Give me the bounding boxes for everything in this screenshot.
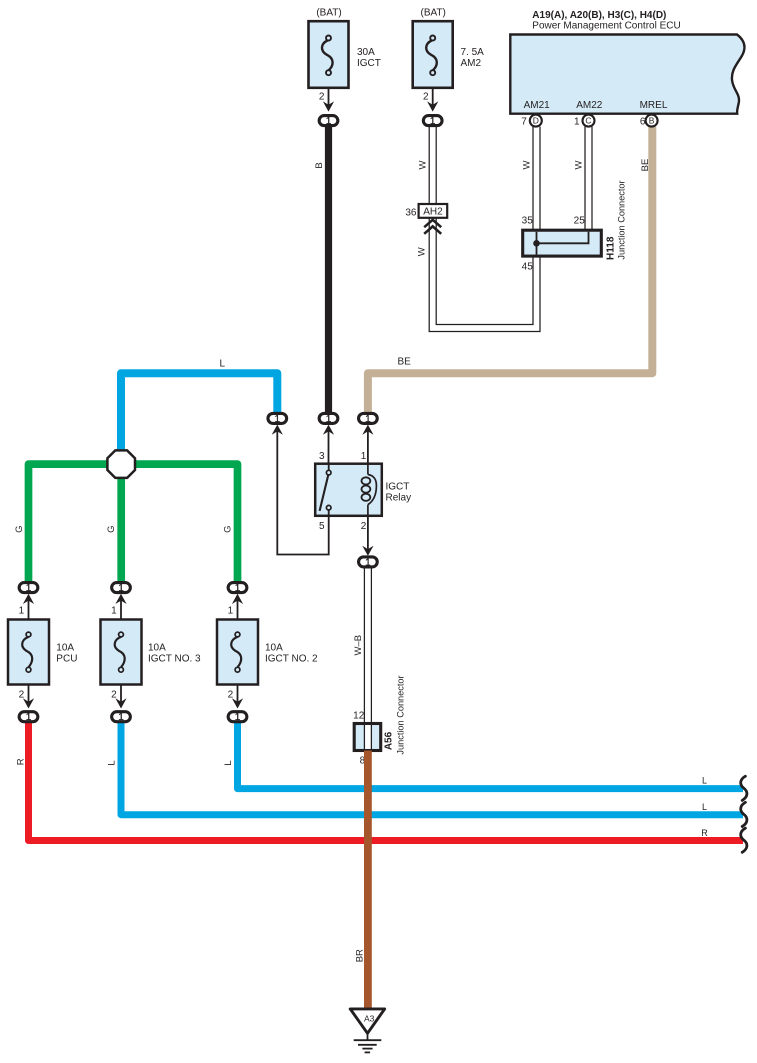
svg-text:L: L (223, 760, 234, 765)
relay IGCT Relay U1 (315, 451, 411, 532)
fuse 10A PCU (8, 620, 77, 685)
wire L (blue, IGCT NO.2 fuse to right edge) (238, 723, 744, 789)
label pin 45 of H118 (522, 262, 534, 273)
label W on AM21 wire (521, 160, 532, 169)
svg-text:IGCT NO. 3: IGCT NO. 3 (148, 654, 201, 665)
node IGCT NO.3 fuse bottom oval pin 2 (111, 690, 130, 724)
wire L (blue, from octagon junction up and right to relay-area oval) (121, 373, 277, 451)
svg-text:36: 36 (405, 207, 417, 218)
svg-text:L: L (106, 760, 117, 765)
wire BR (brown, A56 to ground A3) (364, 751, 372, 1010)
node relay-area left oval connector (268, 413, 287, 434)
label pin 25 of H118 (574, 216, 586, 227)
svg-text:1: 1 (19, 606, 25, 617)
connector AH2 pin 36 (405, 204, 447, 218)
svg-text:G: G (223, 526, 234, 533)
wire fuse 7.5A AM2 pin 2 lead (432, 88, 434, 111)
svg-text:1: 1 (235, 583, 241, 594)
node octagon junction (107, 450, 135, 478)
label L at right edge top (702, 776, 707, 786)
break squiggle right end of blue L wire (middle) (741, 802, 747, 826)
svg-text:10A: 10A (148, 643, 166, 654)
node IGCT NO.3 fuse top oval (111, 583, 130, 617)
svg-text:7: 7 (521, 116, 527, 127)
label L on blue vertical (right) (223, 760, 234, 765)
label L on blue top wire (220, 359, 226, 370)
label W on AM2 wire (418, 160, 429, 169)
svg-text:35: 35 (522, 216, 534, 227)
label L at right edge middle (702, 802, 707, 812)
svg-text:30A: 30A (357, 47, 375, 58)
pin 6 (B) of ECU (640, 115, 658, 128)
op ECU Power Management Control ECU (510, 10, 744, 114)
svg-text:1: 1 (228, 606, 234, 617)
break squiggle right end of red R wire (741, 828, 747, 852)
svg-text:L: L (702, 776, 707, 786)
label G middle (106, 526, 117, 533)
node relay-area right oval connector (359, 413, 378, 434)
label BR on brown wire (354, 949, 365, 962)
fuse 30A IGCT (309, 8, 381, 127)
label G right (223, 526, 234, 533)
node IGCT NO.2 fuse bottom oval pin 2 (228, 690, 247, 724)
wire R (red, PCU fuse to right edge) (29, 723, 744, 841)
svg-text:1: 1 (26, 712, 32, 723)
svg-text:1: 1 (361, 451, 367, 462)
svg-text:AH2: AH2 (423, 207, 443, 218)
label R on red vertical (16, 758, 27, 765)
wire W (ECU pin 7 D AM21 to H118 pin 35) (533, 127, 540, 231)
svg-text:IGCT NO. 2: IGCT NO. 2 (265, 654, 318, 665)
wire from right oval to relay pin 1 (367, 431, 369, 464)
junction connector A56 pins 12/8 (353, 711, 381, 767)
svg-text:1: 1 (365, 557, 371, 568)
wire B (black, 30A IGCT fuse to relay oval) (325, 127, 332, 413)
svg-text:A19(A), A20(B), H3(C), H4(D): A19(A), A20(B), H3(C), H4(D) (532, 10, 666, 21)
svg-text:L: L (702, 802, 707, 812)
label G left (14, 526, 25, 533)
svg-text:(BAT): (BAT) (421, 8, 446, 19)
svg-text:B: B (314, 162, 325, 168)
svg-text:B: B (649, 116, 655, 126)
node PCU fuse bottom oval pin 2 (19, 690, 38, 724)
svg-text:5: 5 (319, 521, 325, 532)
node oval connector below relay pin 2 (359, 546, 378, 569)
svg-text:G: G (14, 526, 25, 533)
svg-text:A3: A3 (364, 1013, 375, 1023)
svg-text:10A: 10A (56, 643, 74, 654)
svg-text:(BAT): (BAT) (316, 8, 341, 19)
svg-text:2: 2 (319, 92, 325, 103)
svg-text:D: D (533, 116, 539, 126)
label BE on MREL wire vertical (640, 159, 651, 172)
svg-text:45: 45 (522, 262, 534, 273)
svg-text:1: 1 (365, 414, 371, 425)
svg-text:12: 12 (353, 711, 365, 722)
wire from middle oval to relay pin 3 (328, 431, 330, 464)
label L on blue vertical (middle) (106, 760, 117, 765)
wire G middle branch (octagon to 10A IGCT NO.3 fuse oval) (117, 476, 125, 582)
label W on AM22 wire (574, 160, 585, 169)
wire L (blue, IGCT NO.3 fuse to right edge) (121, 723, 743, 815)
label B on black wire (314, 162, 325, 168)
svg-text:AM2: AM2 (461, 58, 482, 69)
svg-text:Junction Connector: Junction Connector (617, 180, 627, 259)
svg-text:Power Management Control ECU: Power Management Control ECU (532, 21, 680, 32)
wire relay pin 2 lead (367, 516, 369, 549)
label BE on horizontal segment (398, 357, 412, 368)
svg-text:BE: BE (640, 159, 651, 172)
svg-text:H118: H118 (605, 236, 616, 260)
svg-text:3: 3 (319, 451, 325, 462)
svg-text:AM22: AM22 (576, 100, 603, 111)
svg-text:PCU: PCU (56, 654, 77, 665)
svg-text:Junction Connector: Junction Connector (396, 675, 406, 754)
svg-text:G: G (106, 526, 117, 533)
fuse 10A IGCT NO.3 (101, 620, 202, 685)
wire W-B (relay oval to A56 junction connector) (364, 568, 371, 723)
svg-text:1: 1 (118, 583, 124, 594)
wire fuse 30A IGCT pin 2 lead (328, 88, 330, 111)
pin 1 (C) of ECU (574, 115, 594, 128)
svg-text:2: 2 (361, 521, 367, 532)
label R at right edge (701, 828, 708, 838)
svg-text:W: W (521, 160, 532, 169)
wire W (AM2 fuse oval to AH2 connector) (429, 127, 436, 204)
svg-text:W–B: W–B (353, 635, 364, 656)
svg-text:W: W (417, 247, 428, 256)
svg-text:7. 5A: 7. 5A (461, 47, 485, 58)
svg-text:L: L (220, 359, 226, 370)
ground A3 (350, 1009, 385, 1053)
label A56 Junction Connector (383, 675, 405, 754)
fuse 10A IGCT NO.2 (217, 620, 318, 685)
break squiggle right end of blue L wire (top) (741, 776, 747, 800)
wire G right branch (octagon to 10A IGCT NO.2 fuse oval) (134, 464, 238, 582)
svg-text:1: 1 (326, 414, 332, 425)
svg-text:1: 1 (430, 116, 436, 127)
svg-text:R: R (701, 828, 708, 838)
svg-text:1: 1 (111, 606, 117, 617)
svg-text:R: R (16, 758, 27, 765)
label W on AH2 lower wire (417, 247, 428, 256)
svg-text:10A: 10A (265, 643, 283, 654)
junction connector H118 (523, 230, 602, 256)
svg-text:A56: A56 (383, 731, 394, 750)
node relay-area middle oval connector (319, 413, 338, 434)
wire G left branch (octagon to 10A PCU fuse oval) (29, 464, 109, 582)
svg-text:C: C (585, 116, 591, 126)
fuse 7.5A AM2 (413, 8, 484, 127)
label pin 35 of H118 (522, 216, 534, 227)
node IGCT NO.2 fuse top oval (228, 583, 247, 617)
node PCU fuse top oval (19, 583, 38, 617)
svg-text:2: 2 (423, 92, 429, 103)
svg-text:1: 1 (326, 116, 332, 127)
svg-text:1: 1 (235, 712, 241, 723)
svg-text:25: 25 (574, 216, 586, 227)
svg-text:MREL: MREL (640, 100, 668, 111)
svg-text:BE: BE (398, 357, 412, 368)
svg-text:AM21: AM21 (524, 100, 551, 111)
svg-text:1: 1 (118, 712, 124, 723)
svg-text:1: 1 (26, 583, 32, 594)
svg-text:W: W (418, 160, 429, 169)
label H118 Junction Connector (605, 180, 626, 260)
wire W (ECU pin 1 C AM22 to H118 pin 25) (585, 127, 592, 231)
svg-text:W: W (574, 160, 585, 169)
label W-B on relay output wire (353, 635, 364, 656)
svg-text:BR: BR (354, 949, 365, 962)
wire BE (MREL pin 6 B down, left, down to relay oval) (368, 127, 652, 413)
svg-text:1: 1 (275, 414, 281, 425)
chevron shield mark below AH2 (424, 220, 441, 234)
svg-text:IGCT: IGCT (386, 481, 410, 492)
pin 7 (D) of ECU (521, 115, 542, 128)
svg-text:1: 1 (574, 116, 580, 127)
wire from relay-area left oval to relay pin 5 (277, 431, 328, 555)
wire W (AH2 down, right, up to H118 pin 45) (429, 218, 540, 332)
svg-text:Relay: Relay (386, 492, 412, 503)
wire leads through 10A fuse rows (29, 600, 238, 707)
svg-text:IGCT: IGCT (357, 58, 381, 69)
